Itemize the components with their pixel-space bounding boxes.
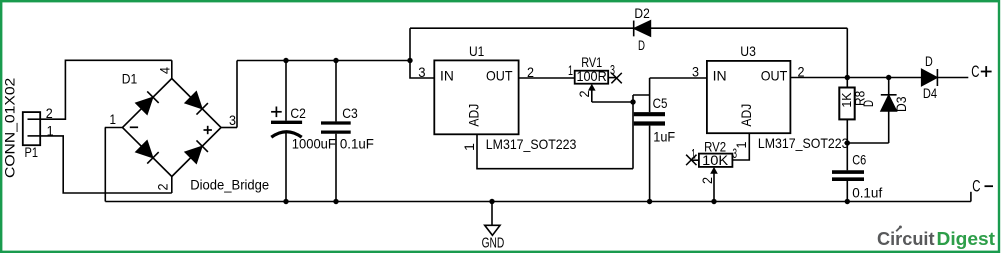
label 1000uF xyxy=(292,136,336,152)
label C6 xyxy=(852,152,866,168)
capacitor C6 leads xyxy=(846,143,848,202)
svg-text:OUT: OUT xyxy=(486,68,513,84)
capacitor C5 plates xyxy=(634,114,665,123)
pin number 3 (U3) xyxy=(692,64,699,80)
junction top rail at U1 riser xyxy=(407,58,412,63)
svg-text:CONN_01X02: CONN_01X02 xyxy=(2,77,18,178)
bridge diode (pin2 to pin3) xyxy=(185,140,208,163)
label U3 xyxy=(740,43,756,59)
svg-text:ADJ: ADJ xyxy=(738,104,754,127)
bridge diode (pin1 to pin4) xyxy=(136,91,159,114)
wire D4 to C+ xyxy=(937,77,968,79)
wire U1 out to RV1 xyxy=(519,77,575,79)
junction RV1 wiper / U1 adj xyxy=(630,99,635,104)
bridge diode (pin4 to pin3) xyxy=(185,91,208,114)
op-amp U1 body xyxy=(434,60,518,134)
label R8 xyxy=(852,91,868,106)
pin number 2 (U3) xyxy=(798,63,805,79)
label C3 xyxy=(342,105,358,121)
pin number 1 (RV1) xyxy=(568,62,573,78)
label D (D2 value) xyxy=(638,37,645,53)
pin number 2 (P1) xyxy=(46,105,53,121)
pin number 2 (RV1) xyxy=(576,90,592,97)
bridge pin 3 stub xyxy=(221,127,237,129)
wire bridge pin3 riser xyxy=(236,61,238,128)
svg-text:C3: C3 xyxy=(342,105,358,121)
svg-text:ADJ: ADJ xyxy=(466,104,482,127)
svg-text:D1: D1 xyxy=(122,70,138,86)
label C5 xyxy=(653,95,668,111)
svg-text:3: 3 xyxy=(733,145,738,161)
svg-text:LM317_SOT223: LM317_SOT223 xyxy=(486,136,577,152)
svg-text:0.1uf: 0.1uf xyxy=(852,184,882,200)
label 0.1uf xyxy=(852,184,882,200)
wire P1 pin2 to bridge pin4 xyxy=(40,60,172,119)
svg-text:D: D xyxy=(638,37,645,53)
pin number 4 (D1) xyxy=(156,67,172,74)
U3 pin name OUT xyxy=(761,68,788,84)
svg-text:D: D xyxy=(925,53,933,69)
capacitor C3 leads xyxy=(335,61,337,202)
label U1 xyxy=(469,43,484,59)
wire R8/D3 bottom link xyxy=(847,142,888,144)
wire top rail to D2 rail xyxy=(409,28,411,60)
junction C2 on bottom rail xyxy=(283,199,288,204)
svg-text:OUT: OUT xyxy=(761,68,788,84)
R8 leads xyxy=(846,78,848,144)
svg-text:U1: U1 xyxy=(469,43,484,59)
svg-text:1: 1 xyxy=(110,111,117,127)
label D3 xyxy=(893,96,909,112)
junction C5 on bottom rail xyxy=(647,199,652,204)
bridge minus mark xyxy=(130,126,138,128)
bottom rail wire xyxy=(105,201,971,203)
wire P1 pin1 to bridge pin2 xyxy=(40,136,172,193)
svg-text:C5: C5 xyxy=(653,95,668,111)
connector P1 body xyxy=(23,112,40,145)
svg-text:0.1uF: 0.1uF xyxy=(340,136,374,152)
svg-text:2: 2 xyxy=(576,90,592,97)
wire U1 adj xyxy=(477,134,633,168)
RV2 value 10K xyxy=(702,152,729,168)
RV2 wiper arrow xyxy=(710,167,718,202)
CircuitDigest logo xyxy=(877,226,995,250)
label D (D3 value) xyxy=(860,100,876,107)
wire to U1 pin3 xyxy=(410,61,434,79)
top rail wire xyxy=(237,60,410,62)
diode bridge D1 outline xyxy=(123,79,222,177)
svg-text:1: 1 xyxy=(568,62,573,78)
svg-text:D4: D4 xyxy=(923,85,937,101)
U3 pin name IN xyxy=(713,68,727,84)
svg-text:2: 2 xyxy=(154,183,170,190)
no-connect X (RV2 pin1) xyxy=(686,155,696,165)
pin number 2 (D1) xyxy=(154,183,170,190)
wire D2 rail xyxy=(410,27,847,29)
U3 pin name ADJ xyxy=(738,104,754,127)
label D4 xyxy=(923,85,937,101)
svg-text:2: 2 xyxy=(699,177,715,184)
capacitor C2 leads xyxy=(285,61,287,202)
label C2 xyxy=(290,105,306,121)
svg-text:C: C xyxy=(971,62,979,81)
junction out row at D3 xyxy=(886,75,891,80)
wire D2 rail drop to out node xyxy=(846,28,848,77)
wire U3 out row xyxy=(790,77,921,79)
svg-text:1: 1 xyxy=(461,143,477,151)
junction GND on bottom rail xyxy=(489,199,494,204)
svg-text:3: 3 xyxy=(692,64,699,80)
capacitor C5 leads xyxy=(649,78,651,202)
wire adj node vertical xyxy=(632,95,634,169)
pin number 1 (P1) xyxy=(47,122,54,138)
wire U3 adj to RV2 pin3 xyxy=(732,133,749,160)
wire bridge pin1 to bottom rail xyxy=(104,128,106,202)
R8 value 1K xyxy=(839,92,854,107)
pin number 1 (U1) xyxy=(461,143,477,151)
C2 polarity plus xyxy=(271,107,282,118)
node C+ label xyxy=(971,62,991,81)
RV1 wiper arrow xyxy=(588,84,596,102)
D3 leads xyxy=(888,78,890,144)
label D2 xyxy=(634,5,650,21)
junction top rail at C2 xyxy=(283,58,288,63)
wire RV1 wiper to node xyxy=(592,101,633,103)
svg-text:C2: C2 xyxy=(290,105,306,121)
RV2 pin1 stub xyxy=(691,159,699,161)
junction C6 on bottom rail xyxy=(845,199,850,204)
svg-text:1000uF: 1000uF xyxy=(292,136,336,152)
diode D4 xyxy=(921,69,937,86)
bridge pin 2 stub xyxy=(171,177,173,194)
pin number 1 (U3) xyxy=(733,141,749,148)
svg-text:Digest: Digest xyxy=(937,228,996,249)
label GND xyxy=(482,235,505,252)
resistor R8 body xyxy=(839,88,854,120)
capacitor C2 top plate xyxy=(271,121,302,124)
diode D3 xyxy=(881,95,897,111)
potentiometer RV2 body xyxy=(699,154,733,167)
bridge diode (pin1 to pin2) xyxy=(136,140,159,163)
U1 pin name OUT xyxy=(486,68,513,84)
label D (D4 value) xyxy=(925,53,933,69)
RV1 pin3 stub xyxy=(608,77,616,79)
U1 pin name IN xyxy=(440,68,454,84)
pin number 2 (RV2) xyxy=(699,177,715,184)
svg-text:D: D xyxy=(860,100,876,107)
svg-text:C: C xyxy=(972,177,980,196)
svg-text:C6: C6 xyxy=(852,152,866,168)
svg-text:3: 3 xyxy=(229,112,236,128)
pin number 2 (U1) xyxy=(527,64,534,80)
label RV1 xyxy=(581,54,602,70)
capacitor C2 bottom plate (arc) xyxy=(271,132,301,138)
wire C- riser xyxy=(970,192,972,202)
svg-text:100R: 100R xyxy=(577,68,607,84)
capacitor C6 plates xyxy=(832,172,864,179)
RV1 value 100R xyxy=(577,68,607,84)
op-amp U3 body xyxy=(707,61,791,133)
junction R8/D3/C6 xyxy=(845,140,850,145)
pin number 1 (D1) xyxy=(110,111,117,127)
svg-text:4: 4 xyxy=(156,67,172,74)
junction RV2 wiper on bottom rail xyxy=(711,199,716,204)
pin number 3 (D1) xyxy=(229,112,236,128)
label 1uF xyxy=(653,129,675,145)
label RV2 xyxy=(704,138,726,154)
junction top rail at C3 xyxy=(333,58,338,63)
svg-text:1uF: 1uF xyxy=(653,129,675,145)
connector P1 labels xyxy=(2,77,38,178)
junction out row at R8 xyxy=(845,75,850,80)
no-connect X (RV1 pin3) xyxy=(611,73,621,83)
svg-text:LM317_SOT223: LM317_SOT223 xyxy=(758,135,849,151)
label D1 xyxy=(122,70,138,86)
wire adj node to C5 xyxy=(633,94,650,96)
svg-text:P1: P1 xyxy=(25,144,39,160)
svg-text:3: 3 xyxy=(418,64,425,80)
diode D2 xyxy=(634,20,651,36)
U1 pin name ADJ xyxy=(466,104,482,127)
node C- label xyxy=(972,177,993,196)
svg-text:Circuit: Circuit xyxy=(877,228,935,249)
wire C5 to U3 pin3 xyxy=(650,77,707,79)
pin number 3 (U1) xyxy=(418,64,425,80)
label Diode_Bridge xyxy=(190,177,269,193)
svg-text:IN: IN xyxy=(440,68,454,84)
label LM317_SOT223 (U1) xyxy=(486,136,577,152)
ground symbol xyxy=(485,202,500,236)
svg-text:U3: U3 xyxy=(740,43,756,59)
label 0.1uF xyxy=(340,136,374,152)
bridge plus mark xyxy=(204,126,212,134)
pin number 3 (RV1) xyxy=(610,62,615,78)
capacitor C3 plates xyxy=(321,123,351,132)
svg-text:Diode_Bridge: Diode_Bridge xyxy=(190,177,269,193)
svg-text:10K: 10K xyxy=(702,152,729,168)
bridge pin 4 stub xyxy=(171,60,173,78)
bridge pin 1 stub xyxy=(105,127,123,129)
svg-text:GND: GND xyxy=(482,235,505,252)
junction C3 on bottom rail xyxy=(333,199,338,204)
label LM317_SOT223 (U3) xyxy=(758,135,849,151)
pin number 1 (RV2) xyxy=(691,145,696,161)
svg-text:D2: D2 xyxy=(634,5,650,21)
potentiometer RV1 body xyxy=(575,71,609,84)
svg-text:IN: IN xyxy=(713,68,727,84)
svg-text:D3: D3 xyxy=(893,96,909,112)
pin number 3 (RV2) xyxy=(733,145,738,161)
